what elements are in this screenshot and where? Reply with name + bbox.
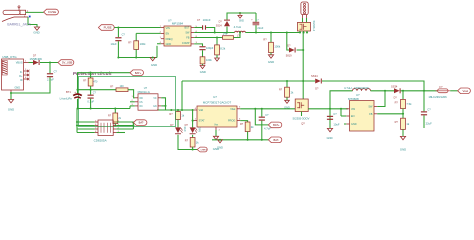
- svg-text:U?: U?: [144, 86, 148, 90]
- svg-text:U?: U?: [168, 18, 172, 22]
- svg-text:MCP73831T-2ACI/OT: MCP73831T-2ACI/OT: [203, 101, 232, 105]
- svg-text:100k: 100k: [274, 44, 280, 48]
- svg-text:STAT: STAT: [199, 120, 205, 123]
- svg-text:BST: BST: [185, 27, 190, 30]
- svg-text:18LC236/1206: 18LC236/1206: [428, 95, 447, 99]
- svg-text:BARREL_JACK: BARREL_JACK: [7, 22, 31, 26]
- svg-text:D+: D+: [19, 75, 23, 78]
- svg-text:BAT-: BAT-: [139, 121, 145, 125]
- svg-text:BAT+: BAT+: [273, 123, 280, 127]
- svg-text:1N5819W: 1N5819W: [30, 57, 43, 61]
- svg-text:EN: EN: [351, 115, 355, 118]
- svg-text:100k: 100k: [206, 58, 212, 62]
- svg-text:RED: RED: [183, 127, 185, 132]
- svg-text:10uF: 10uF: [333, 122, 339, 126]
- svg-text:Vbat: Vbat: [230, 108, 235, 111]
- svg-text:5V_USB: 5V_USB: [62, 61, 73, 65]
- svg-text:GND: GND: [217, 146, 223, 150]
- svg-text:GND: GND: [151, 63, 157, 67]
- svg-text:EN: EN: [166, 33, 170, 36]
- svg-text:5819: 5819: [286, 53, 292, 57]
- svg-text:SW: SW: [185, 32, 190, 35]
- svg-text:COMP: COMP: [182, 42, 190, 45]
- svg-text:Vout: Vout: [462, 89, 468, 93]
- svg-text:8.2k: 8.2k: [220, 47, 226, 51]
- svg-text:FB: FB: [186, 37, 190, 40]
- svg-text:Vdd: Vdd: [199, 109, 204, 112]
- svg-text:100pF: 100pF: [206, 46, 214, 50]
- svg-text:GND: GND: [8, 108, 14, 112]
- svg-text:SS34: SS34: [216, 24, 223, 27]
- svg-text:CS: CS: [139, 102, 143, 104]
- svg-text:FREQ: FREQ: [166, 38, 173, 41]
- svg-text:BAT-: BAT-: [274, 138, 280, 142]
- svg-text:FUSE: FUSE: [48, 10, 56, 14]
- svg-text:CD8205A: CD8205A: [94, 139, 107, 143]
- svg-text:U7: U7: [213, 95, 217, 99]
- svg-text:22uF: 22uF: [426, 122, 432, 126]
- svg-text:100: 100: [120, 85, 125, 88]
- svg-text:GND: GND: [351, 123, 357, 126]
- svg-text:SS34: SS34: [391, 84, 398, 88]
- svg-text:100k: 100k: [140, 42, 146, 46]
- svg-text:SI2301-2: SI2301-2: [312, 21, 316, 32]
- svg-text:GND: GND: [268, 60, 274, 64]
- svg-text:GN: GN: [153, 106, 157, 108]
- svg-text:4.7uH: 4.7uH: [234, 25, 241, 29]
- svg-text:2.2uF: 2.2uF: [47, 78, 54, 82]
- svg-text:4.7uH - CDRH3D16: 4.7uH - CDRH3D16: [344, 86, 369, 90]
- svg-text:D-: D-: [20, 71, 23, 74]
- svg-text:USB_OTG: USB_OTG: [2, 55, 17, 59]
- svg-text:470: 470: [93, 80, 98, 83]
- svg-text:VIN: VIN: [351, 108, 355, 111]
- svg-text:BT1: BT1: [66, 90, 71, 94]
- svg-text:CHRG: CHRG: [200, 150, 207, 152]
- svg-text:10uF: 10uF: [111, 42, 117, 46]
- svg-text:GND: GND: [166, 43, 172, 46]
- svg-text:OC: OC: [139, 106, 143, 108]
- svg-text:GND: GND: [200, 70, 206, 74]
- svg-text:Li-ion/LiPo: Li-ion/LiPo: [60, 97, 73, 101]
- svg-text:100nF: 100nF: [203, 18, 211, 22]
- svg-text:FUSE: FUSE: [104, 26, 112, 30]
- svg-text:MT3608: MT3608: [348, 97, 359, 101]
- svg-text:PROG: PROG: [228, 120, 235, 123]
- svg-text:+: +: [74, 90, 76, 94]
- svg-text:VIN: VIN: [166, 27, 170, 30]
- svg-text:GND: GND: [239, 21, 244, 23]
- svg-text:MP1584: MP1584: [172, 22, 184, 26]
- svg-text:OD: OD: [139, 98, 143, 100]
- svg-text:GND: GND: [33, 30, 39, 34]
- svg-text:Protection circuit: Protection circuit: [73, 71, 112, 76]
- svg-text:GRN: GRN: [198, 127, 200, 132]
- svg-text:24k: 24k: [223, 32, 228, 36]
- svg-text:VBUS: VBUS: [16, 62, 23, 65]
- svg-text:DW01A-G: DW01A-G: [138, 90, 150, 94]
- svg-text:SS34: SS34: [311, 74, 318, 78]
- svg-text:FB: FB: [369, 113, 373, 116]
- svg-text:BAT+: BAT+: [135, 71, 142, 75]
- svg-text:Q?: Q?: [301, 122, 305, 126]
- svg-text:GND: GND: [14, 87, 20, 90]
- svg-text:GND: GND: [400, 147, 406, 151]
- svg-text:ID: ID: [20, 79, 23, 82]
- svg-text:VC: VC: [153, 98, 157, 100]
- svg-text:GND: GND: [327, 136, 333, 140]
- svg-text:7.5k: 7.5k: [406, 102, 412, 106]
- svg-text:SI2305-3OOV: SI2305-3OOV: [293, 117, 310, 121]
- svg-text:SW: SW: [368, 106, 373, 109]
- svg-text:22uF: 22uF: [257, 26, 263, 30]
